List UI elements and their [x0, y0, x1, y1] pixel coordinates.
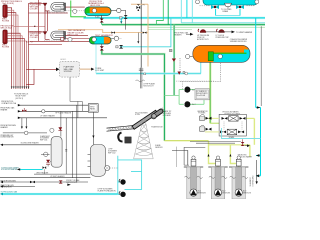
svg-text:SERVICES: SERVICES — [198, 193, 206, 195]
svg-text:PRESSURE TMP: PRESSURE TMP — [216, 37, 230, 39]
svg-text:WELLS No2: WELLS No2 — [1, 28, 13, 30]
svg-text:LP FLARE: LP FLARE — [163, 114, 172, 117]
svg-text:HEADER: HEADER — [1, 126, 9, 129]
svg-text:ALTERNT SYS: ALTERNT SYS — [197, 38, 209, 41]
svg-text:CONTACTOR OVH: CONTACTOR OVH — [1, 102, 16, 105]
svg-text:HP FLARE HEADER: HP FLARE HEADER — [55, 112, 72, 115]
svg-text:FLOWS: FLOWS — [2, 20, 10, 22]
svg-text:COOLER: COOLER — [30, 37, 38, 39]
svg-text:SCRUBBER: SCRUBBER — [40, 138, 50, 140]
svg-text:& IGN: & IGN — [135, 114, 140, 116]
svg-text:SERVICES: SERVICES — [243, 193, 251, 195]
svg-text:HEATER: HEATER — [1, 108, 8, 111]
svg-text:SERVICES: SERVICES — [222, 193, 230, 195]
svg-text:DRUM PUMPS: DRUM PUMPS — [197, 93, 208, 95]
svg-text:HEADER: HEADER — [174, 33, 182, 36]
svg-text:OVERBOARD: OVERBOARD — [252, 175, 255, 187]
svg-text:LT/HP: LT/HP — [108, 149, 112, 151]
svg-text:LP VENT HEADER: LP VENT HEADER — [40, 114, 55, 117]
svg-text:No 2: No 2 — [192, 104, 196, 106]
svg-text:No 3: No 3 — [243, 191, 246, 193]
svg-text:SUPERVISOR: SUPERVISOR — [1, 187, 13, 189]
svg-text:LOC UNIT: LOC UNIT — [95, 70, 105, 72]
svg-text:FLARE PROPAGATION: FLARE PROPAGATION — [98, 190, 117, 193]
svg-text:HMP 1012: HMP 1012 — [108, 152, 116, 154]
svg-text:KNOCKOUT: KNOCKOUT — [143, 86, 154, 88]
svg-text:(NOTE 3): (NOTE 3) — [15, 98, 23, 100]
svg-text:No 2: No 2 — [222, 191, 225, 193]
svg-text:DRAIN: DRAIN — [223, 10, 229, 13]
svg-text:SKIMMER SERVICES: SKIMMER SERVICES — [230, 41, 248, 43]
svg-text:FLARE BOOM: FLARE BOOM — [151, 126, 163, 129]
svg-text:BLOWDOWN HEADER: BLOWDOWN HEADER — [21, 142, 40, 145]
svg-text:No 1: No 1 — [198, 191, 201, 193]
svg-text:DERRICK: DERRICK — [155, 147, 163, 149]
svg-text:SPARE: SPARE — [229, 136, 235, 139]
svg-text:COOLER: COOLER — [30, 8, 38, 10]
svg-text:HELD 1234: HELD 1234 — [90, 5, 100, 7]
svg-text:PANEL: PANEL — [90, 108, 95, 111]
svg-text:SCRUBBER: SCRUBBER — [108, 150, 118, 152]
svg-text:FLOWS: FLOWS — [2, 47, 10, 49]
svg-text:V-101: V-101 — [95, 17, 99, 19]
svg-text:HYDROCYCLONES: HYDROCYCLONES — [225, 114, 241, 116]
svg-text:HOLD 1: HOLD 1 — [61, 59, 67, 61]
svg-text:TO VENT HEATER: TO VENT HEATER — [236, 31, 253, 34]
svg-text:DOWN STATION: DOWN STATION — [1, 136, 15, 139]
svg-text:SYSTEM: SYSTEM — [64, 71, 72, 73]
svg-text:HELD 1234: HELD 1234 — [68, 34, 79, 36]
svg-text:HMP 1011: HMP 1011 — [40, 139, 47, 141]
